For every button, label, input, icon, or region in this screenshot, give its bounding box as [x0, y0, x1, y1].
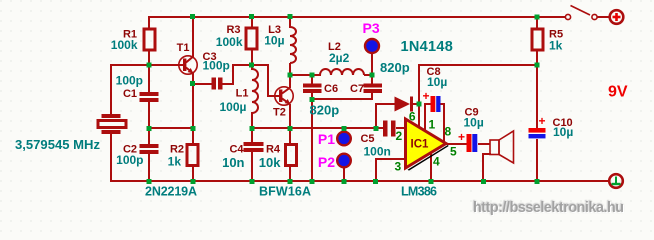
svg-text:BFW16A: BFW16A — [259, 185, 311, 199]
wire pin8 lead — [440, 104, 444, 143]
node junction diode cathode pin6 — [417, 102, 422, 107]
wire C4 top lead — [251, 127, 253, 143]
wire diode anode lead — [376, 104, 395, 129]
node junction y128 diode C5 — [374, 126, 379, 131]
resistor R1 — [144, 29, 155, 50]
wire P1 top lead — [343, 127, 345, 132]
wire C10 top lead — [536, 64, 538, 129]
node junction rail C10 — [535, 179, 540, 184]
op-amp IC1 LM386 triangle — [406, 119, 447, 168]
svg-text:http://bsselektronika.hu: http://bsselektronika.hu — [473, 200, 624, 216]
node junction top rail R3 — [249, 14, 254, 19]
wire T2 collector lead — [289, 74, 291, 88]
wire C5 right to pin2 — [396, 127, 406, 129]
node junction y128 T2 emitter R4 — [288, 126, 293, 131]
svg-text:R4: R4 — [266, 144, 281, 156]
test point P3 — [365, 39, 379, 53]
svg-text:C7: C7 — [350, 83, 364, 95]
wire R1 top lead — [148, 16, 150, 28]
wire C6 bottom lead to ground — [311, 92, 313, 182]
svg-text:C1: C1 — [123, 88, 137, 100]
node junction rail C4 — [250, 179, 255, 184]
node junction top rail L3 — [288, 14, 293, 19]
node junction top rail R5 — [535, 15, 540, 20]
wire C7 top lead — [371, 74, 373, 84]
node junction rail speaker — [481, 179, 486, 184]
wire C4 bottom lead — [251, 151, 253, 182]
wire R1 bottom lead — [148, 51, 150, 66]
node junction y75 C6 tap — [310, 73, 315, 78]
wire C2 bottom lead — [148, 153, 150, 182]
capacitor C10 electrolytic — [529, 128, 546, 138]
battery plus terminal — [610, 10, 624, 24]
svg-text:100p: 100p — [116, 153, 143, 167]
svg-text:10µ: 10µ — [264, 34, 284, 48]
svg-text:3: 3 — [395, 160, 402, 174]
svg-text:10µ: 10µ — [464, 116, 484, 130]
wire C3 right to T2 base node — [222, 65, 280, 96]
svg-text:P3: P3 — [363, 20, 380, 36]
wire C9 to speaker — [478, 143, 490, 145]
diode D 1N4148 — [395, 97, 414, 112]
wire L2 right end to C7 node — [364, 74, 372, 76]
wire pin1 lead — [425, 104, 431, 131]
wire T1 emitter lead down — [192, 72, 194, 129]
wire T1 emitter to C3 — [192, 83, 212, 85]
wire L1 bottom lead — [251, 112, 253, 129]
svg-text:4: 4 — [433, 155, 440, 169]
wire L3 bottom lead — [289, 63, 291, 76]
crystal X1 3,579545 MHz — [98, 65, 126, 134]
node junction y75 L2 C7 P3 — [370, 73, 375, 78]
svg-text:C6: C6 — [324, 83, 338, 95]
wire T1 collector lead — [192, 16, 194, 57]
node junction C6 C7 ground line — [310, 97, 315, 102]
svg-text:1k: 1k — [168, 155, 182, 169]
svg-text:10n: 10n — [222, 155, 244, 170]
svg-text:T2: T2 — [273, 107, 286, 119]
capacitor C7 plates — [364, 84, 383, 88]
svg-text:1: 1 — [429, 118, 436, 132]
node junction rail C2 — [147, 179, 152, 184]
transistor T2 BFW16A — [275, 87, 293, 105]
wire P3 lead — [371, 53, 373, 76]
capacitor C6 plates — [303, 84, 322, 88]
svg-text:LM386: LM386 — [401, 185, 437, 199]
node junction y65 R5 C10 — [535, 63, 540, 68]
svg-text:100p: 100p — [116, 74, 143, 88]
capacitor C5 plates — [383, 121, 388, 137]
op-amp IC1 shadow — [408, 145, 449, 171]
node junction y128 C1 C2 — [147, 126, 152, 131]
resistor R5 — [532, 29, 543, 50]
wire collector node y75 to L2 — [289, 74, 321, 76]
svg-text:P1: P1 — [318, 131, 335, 147]
wire R2 bottom lead — [192, 166, 194, 182]
wire pin5 output lead — [445, 143, 467, 145]
svg-text:2: 2 — [396, 129, 403, 143]
resistor R2 — [187, 145, 198, 166]
wire node seg2 main — [251, 127, 383, 129]
svg-text:2N2219A: 2N2219A — [145, 185, 197, 199]
wire diode cathode to pin6 node — [412, 103, 420, 105]
capacitor C3 plates — [212, 78, 217, 90]
svg-text:1k: 1k — [549, 39, 563, 53]
svg-text:6: 6 — [409, 110, 416, 124]
transistor T1 2N2219A — [179, 56, 197, 74]
capacitor C9 electrolytic — [467, 134, 478, 152]
svg-text:5: 5 — [450, 145, 457, 159]
wire P2 bottom lead — [343, 167, 345, 182]
resistor R4 — [286, 145, 297, 166]
wire R4 top lead — [289, 127, 291, 145]
svg-text:L1: L1 — [236, 88, 249, 100]
svg-text:C4: C4 — [229, 144, 244, 156]
battery ground terminal — [609, 174, 623, 188]
test point P2 — [337, 154, 351, 168]
svg-text:T1: T1 — [177, 42, 190, 54]
wire R3 top lead — [251, 16, 253, 29]
svg-text:10µ: 10µ — [427, 75, 447, 89]
svg-text:100µ: 100µ — [220, 100, 247, 114]
node junction T1 emitter C3 — [190, 81, 195, 86]
svg-text:P2: P2 — [318, 154, 335, 170]
capacitor C2 plates — [140, 144, 159, 148]
resistor R3 — [246, 28, 257, 49]
node junction top rail T1 collector — [190, 14, 195, 19]
capacitor C8 electrolytic — [431, 96, 441, 112]
wire L3 top lead — [289, 16, 291, 28]
node junction rail R4 — [288, 179, 293, 184]
speaker LS — [490, 131, 514, 163]
inductor L1 100u vertical coil — [252, 69, 258, 113]
wire base rail y65 from left corner to T1 base — [111, 65, 183, 115]
inductor L3 10u vertical coil — [290, 27, 296, 63]
wire top rail — [148, 16, 566, 18]
wire crystal bottom lead — [110, 133, 112, 182]
node junction rail P2 — [342, 179, 347, 184]
wire R5 bottom lead — [536, 50, 538, 66]
svg-text:IC1: IC1 — [411, 139, 430, 151]
wire C2 top lead — [148, 127, 150, 145]
svg-text:8: 8 — [445, 125, 452, 139]
node junction rail R2 — [191, 179, 196, 184]
svg-text:1N4148: 1N4148 — [401, 39, 454, 55]
svg-text:3,579545 MHz: 3,579545 MHz — [15, 138, 100, 152]
inductor L2 2u2 horizontal coil — [320, 69, 364, 75]
node junction y128 P1 — [342, 126, 347, 131]
svg-text:10µ: 10µ — [553, 125, 573, 139]
svg-text:100p: 100p — [203, 59, 230, 73]
wire switch to plus terminal — [597, 16, 610, 18]
wire T2 emitter lead — [289, 104, 291, 129]
wire R5 top lead — [536, 16, 538, 29]
capacitor C1 plates — [140, 92, 159, 96]
svg-text:+: + — [539, 114, 546, 128]
svg-text:100k: 100k — [111, 38, 138, 52]
svg-text:820p: 820p — [310, 103, 340, 118]
wire bottom ground rail — [110, 180, 610, 182]
wire node seg1 C1C2 to emitter — [148, 127, 193, 129]
switch S1 — [565, 6, 597, 20]
capacitor C4 plates — [244, 142, 264, 146]
svg-text:820p: 820p — [380, 60, 410, 75]
svg-text:+: + — [423, 89, 430, 103]
wire C7 bottom to C6 gnd line — [311, 93, 372, 99]
node junction y65 R3 L1 — [249, 63, 254, 68]
node junction y65 R1 C1 — [147, 63, 152, 68]
svg-text:10k: 10k — [259, 155, 281, 170]
wire C10 bottom lead — [536, 139, 538, 182]
svg-text:100k: 100k — [216, 35, 243, 49]
node junction rail C6C7 — [310, 179, 315, 184]
wire R2 top lead — [192, 127, 194, 145]
svg-text:C5: C5 — [360, 133, 374, 145]
test point P1 — [337, 132, 351, 146]
node junction rail pin4 — [429, 179, 434, 184]
node junction rail pin3 — [373, 179, 378, 184]
svg-text:100n: 100n — [364, 145, 391, 159]
wire pin3 to ground — [376, 159, 406, 182]
wire C1 bottom lead to node — [148, 101, 150, 129]
svg-text:+: + — [458, 130, 465, 144]
wire L1 top lead — [251, 64, 253, 70]
node junction y128 emitter R2 — [191, 126, 196, 131]
node junction y128 L1 C4 — [250, 126, 255, 131]
wire pin6 vertical and supply branch y65 — [419, 65, 538, 128]
wire pin4 lead — [430, 152, 432, 182]
wire speaker bottom to ground — [483, 154, 491, 182]
wire C1 top lead — [148, 64, 150, 93]
wire R3 bottom lead — [251, 50, 253, 66]
svg-text:2µ2: 2µ2 — [329, 51, 350, 65]
wire R4 bottom lead — [289, 166, 291, 182]
node junction y75 T2 collector L3 — [288, 73, 293, 78]
wire C6 top lead — [311, 74, 313, 84]
svg-text:9V: 9V — [608, 84, 628, 101]
